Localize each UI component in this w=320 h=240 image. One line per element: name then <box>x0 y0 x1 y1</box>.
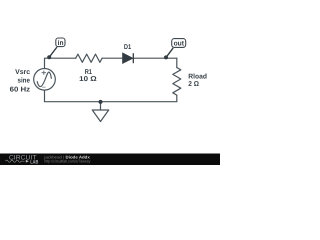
svg-text:D1: D1 <box>124 44 131 51</box>
svg-text:2 Ω: 2 Ω <box>188 81 199 88</box>
svg-text:out: out <box>174 41 185 48</box>
svg-text:LAB: LAB <box>30 159 39 165</box>
svg-text:10 Ω: 10 Ω <box>79 76 97 83</box>
svg-text:in: in <box>58 39 64 47</box>
svg-text:60 Hz: 60 Hz <box>10 86 31 93</box>
svg-text:Vsrc: Vsrc <box>15 69 30 76</box>
svg-text:sine: sine <box>18 77 30 85</box>
svg-text:Rload: Rload <box>188 73 207 81</box>
svg-text:http://circuitlab.com/c/7awesy: http://circuitlab.com/c/7awesy <box>44 159 90 164</box>
svg-text:R1: R1 <box>85 69 92 76</box>
